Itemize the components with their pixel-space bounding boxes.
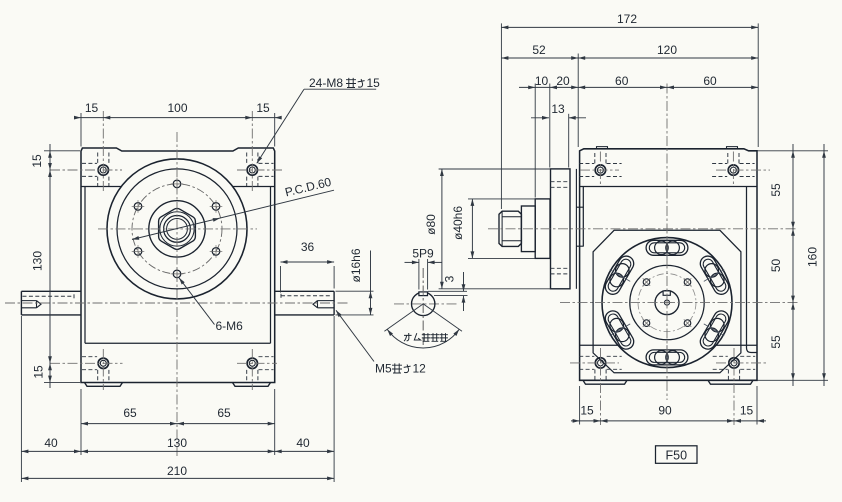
svg-text:12: 12 xyxy=(413,362,427,376)
svg-text:3: 3 xyxy=(443,275,457,282)
svg-text:13: 13 xyxy=(551,102,565,116)
svg-text:120: 120 xyxy=(657,43,677,57)
svg-text:15: 15 xyxy=(740,404,754,418)
svg-text:65: 65 xyxy=(123,406,137,420)
svg-text:ø16h6: ø16h6 xyxy=(349,248,363,282)
svg-text:15: 15 xyxy=(580,404,594,418)
svg-text:50: 50 xyxy=(769,259,783,273)
svg-text:40: 40 xyxy=(44,436,58,450)
svg-text:15: 15 xyxy=(85,101,99,115)
svg-text:172: 172 xyxy=(617,12,637,26)
svg-text:130: 130 xyxy=(31,251,45,271)
svg-text:6-M6: 6-M6 xyxy=(216,319,244,333)
svg-text:F50: F50 xyxy=(666,448,688,462)
svg-text:15: 15 xyxy=(32,365,46,379)
svg-text:36: 36 xyxy=(301,240,315,254)
svg-text:15: 15 xyxy=(367,76,381,90)
svg-text:40: 40 xyxy=(296,436,310,450)
svg-text:100: 100 xyxy=(167,101,187,115)
svg-text:10: 10 xyxy=(535,74,549,88)
svg-text:5P9: 5P9 xyxy=(412,247,434,261)
svg-text:90: 90 xyxy=(658,404,672,418)
svg-text:55: 55 xyxy=(769,183,783,197)
svg-text:60: 60 xyxy=(615,74,629,88)
svg-text:24-M8: 24-M8 xyxy=(309,76,343,90)
svg-text:20: 20 xyxy=(556,74,570,88)
svg-text:15: 15 xyxy=(30,154,44,168)
svg-text:52: 52 xyxy=(532,43,546,57)
svg-text:ø80: ø80 xyxy=(424,214,438,235)
svg-text:60: 60 xyxy=(703,74,717,88)
svg-text:ø40h6: ø40h6 xyxy=(451,206,465,240)
svg-text:M5: M5 xyxy=(375,362,392,376)
svg-text:130: 130 xyxy=(167,436,187,450)
svg-text:65: 65 xyxy=(217,406,231,420)
svg-text:210: 210 xyxy=(167,464,187,478)
svg-text:160: 160 xyxy=(806,247,820,267)
svg-text:15: 15 xyxy=(256,101,270,115)
svg-text:55: 55 xyxy=(769,335,783,349)
